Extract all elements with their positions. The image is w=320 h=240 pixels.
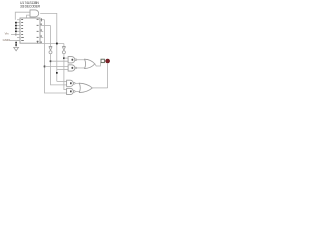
wire bus C branch to gate2: [57, 69, 68, 71]
nand gate G3: [67, 80, 74, 86]
diode D1: [49, 46, 52, 53]
wire LED stem: [107, 63, 109, 88]
wire bus D branch to gate2: [45, 65, 69, 67]
junction dot ground wire upper: [15, 42, 17, 44]
wire bus F vertical lower: [64, 54, 67, 90]
wire bus D vertical: [45, 20, 67, 93]
junction dot bus F: [63, 57, 65, 59]
wire bus C branch to gate3: [57, 80, 67, 82]
diode D2: [62, 46, 65, 53]
wire GND to pin 8: [10, 40, 20, 42]
gate G3 label: [70, 82, 72, 84]
wire bus E vertical lower: [51, 54, 67, 85]
junction dot bus D: [44, 66, 46, 68]
wire gate A input 2: [27, 15, 30, 18]
unconnected pin marker dot pin 4: [15, 28, 17, 30]
junction dot bus E: [50, 60, 52, 62]
IC U1 inner pin labels right: [37, 19, 39, 42]
gate G2 label: [72, 67, 74, 69]
junction tick VIN wire: [15, 33, 17, 36]
wire G5 output to probe: [95, 63, 101, 66]
LED indicator: [106, 59, 110, 63]
or gate G6: [79, 83, 92, 92]
gate G1 label: [72, 59, 74, 61]
svg-text:3:8 DECODER: 3:8 DECODER: [20, 5, 41, 9]
pin 16 tick: [41, 18, 43, 21]
wire bus E vertical upper: [50, 26, 52, 47]
IC right pin stub 4: [40, 36, 43, 38]
pin number tick right pin 5: [40, 41, 43, 43]
wire bus F vertical upper: [63, 44, 65, 47]
IC right pin stub 1: [40, 19, 45, 21]
junction dot bus C: [56, 72, 58, 74]
wire G2 output: [77, 67, 85, 69]
nand gate G1: [68, 57, 75, 63]
gate G4 bubble: [73, 91, 75, 93]
wire VIN to pin 6: [11, 33, 20, 35]
wire G1 output: [77, 59, 85, 61]
junction dot bus C bottom row: [56, 43, 58, 45]
svg-text:GND1: GND1: [3, 38, 11, 42]
IC U1 pin 8 tick bottom right: [37, 41, 39, 44]
pin number tick right pin 2: [40, 23, 43, 25]
ground symbol: [14, 47, 19, 50]
wire gate A input 1: [15, 12, 30, 20]
unconnected pin marker dot pin 3: [15, 25, 17, 27]
pin number tick right pin 4: [40, 35, 43, 37]
unconnected pin marker dot pin 2: [15, 22, 17, 24]
wire IC bottom row: [40, 43, 64, 45]
nand gate G2: [68, 65, 75, 71]
nand gate G4: [67, 88, 74, 94]
IC U1 body: [20, 18, 40, 43]
wire G6 output to LED: [92, 87, 107, 89]
unconnected pin marker dot pin 5: [15, 31, 17, 33]
junction dot ground wire lower: [15, 44, 17, 46]
wire G4 output: [75, 90, 80, 92]
wire to ground: [15, 41, 17, 48]
probe square: [101, 59, 104, 62]
svg-text:Vin: Vin: [5, 32, 9, 36]
or gate G5: [85, 59, 95, 68]
pin number tick right pin 3: [40, 29, 43, 31]
IC left pin stubs: [17, 20, 20, 41]
gate G1 bubble: [75, 59, 77, 61]
gate G3 bubble: [73, 83, 75, 85]
wire gate A output to bus: [40, 13, 57, 81]
wire bus E branch to gate1: [51, 60, 69, 62]
and gate A1: [30, 10, 39, 17]
IC right pin stub 2: [40, 25, 51, 27]
wire G3 output: [75, 82, 80, 84]
IC right pin stub 3: [40, 30, 43, 32]
gate G2 bubble: [75, 67, 77, 69]
IC U1 inner pin labels left: [21, 19, 24, 41]
gate G4 label: [70, 90, 72, 92]
wire bus F branch to gate1: [64, 57, 68, 59]
